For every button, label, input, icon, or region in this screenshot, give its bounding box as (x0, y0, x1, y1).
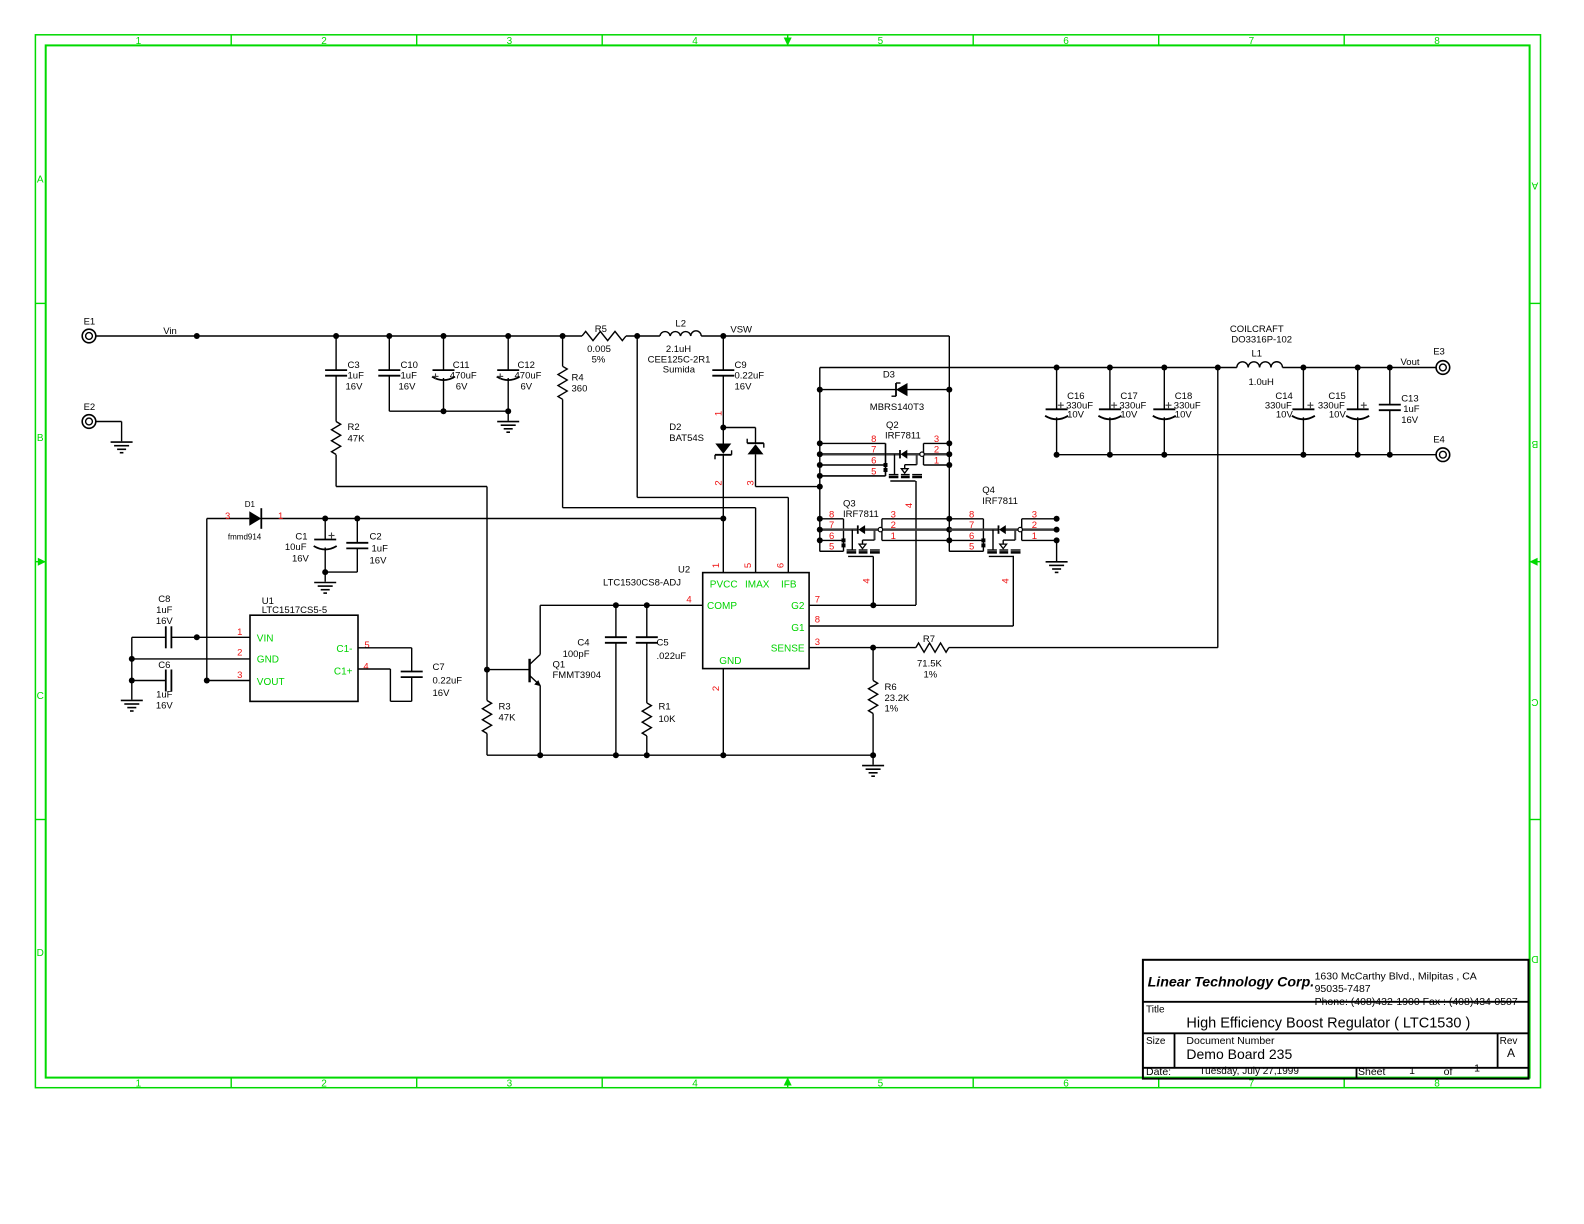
svg-text:1: 1 (237, 627, 242, 638)
svg-text:Size: Size (1146, 1036, 1166, 1047)
svg-text:6: 6 (829, 531, 834, 542)
svg-text:1uF: 1uF (401, 370, 418, 381)
svg-text:Q2: Q2 (886, 420, 899, 431)
svg-text:Q3: Q3 (843, 499, 856, 510)
svg-text:8: 8 (1434, 1078, 1440, 1089)
svg-text:2: 2 (321, 1078, 327, 1089)
svg-text:2: 2 (714, 480, 725, 485)
svg-text:1: 1 (934, 456, 939, 467)
svg-text:D3: D3 (883, 369, 895, 380)
capacitor C7 (401, 671, 423, 673)
svg-text:6V: 6V (456, 382, 468, 393)
svg-text:71.5K: 71.5K (917, 659, 942, 670)
wire G2 row (809, 604, 916, 606)
svg-text:C8: C8 (158, 594, 170, 605)
svg-text:10V: 10V (1175, 410, 1193, 421)
svg-text:LTC1517CS5-5: LTC1517CS5-5 (262, 605, 327, 616)
transistor Q3 IRF7811 (820, 518, 844, 520)
svg-text:6: 6 (969, 531, 974, 542)
diode D3 MBRS140T3 (820, 389, 896, 391)
wire cap bank bottom rail (389, 410, 508, 412)
wire VOUT row (207, 680, 250, 682)
svg-text:4: 4 (692, 36, 698, 47)
wire E2 to ground (96, 421, 122, 423)
svg-text:A: A (1531, 180, 1538, 191)
svg-text:47K: 47K (499, 713, 517, 724)
capacitor C13 (1389, 368, 1391, 405)
svg-text:E2: E2 (84, 402, 96, 413)
wire R2 bottom to Q1 base column (336, 486, 487, 488)
svg-text:5: 5 (878, 36, 884, 47)
svg-text:7: 7 (1249, 1078, 1255, 1089)
wire G1 row (809, 625, 1013, 627)
svg-text:R7: R7 (923, 634, 935, 645)
svg-text:IMAX: IMAX (745, 579, 770, 590)
capacitor C10 (388, 336, 390, 370)
wire GND row (132, 658, 250, 660)
svg-text:2: 2 (934, 445, 939, 456)
svg-text:8: 8 (829, 509, 834, 520)
resistor R5 (582, 331, 626, 340)
svg-text:FMMT3904: FMMT3904 (553, 670, 602, 681)
svg-text:16V: 16V (156, 616, 174, 627)
capacitor C5 (644, 602, 650, 608)
svg-text:3: 3 (891, 509, 896, 520)
svg-text:R5: R5 (595, 324, 607, 335)
svg-text:6: 6 (1063, 36, 1069, 47)
svg-text:High Efficiency Boost Regulato: High Efficiency Boost Regulator ( LTC153… (1186, 1015, 1470, 1031)
border frame inner (46, 45, 1530, 1077)
svg-text:4: 4 (904, 503, 915, 508)
capacitor C4 (613, 602, 619, 608)
svg-text:L2: L2 (675, 318, 686, 329)
svg-text:5: 5 (878, 1078, 884, 1089)
capacitor C17 (1109, 368, 1111, 410)
wire SENSE row (809, 647, 873, 649)
svg-text:C1-: C1- (336, 644, 352, 655)
wire SENSE feedback vertical (1217, 368, 1219, 648)
svg-text:C13: C13 (1401, 394, 1418, 405)
svg-text:2: 2 (321, 36, 327, 47)
diode D1 fmmd914 (249, 511, 261, 525)
svg-text:DO3316P-102: DO3316P-102 (1231, 335, 1292, 346)
svg-text:1: 1 (714, 411, 725, 416)
svg-text:L1: L1 (1252, 349, 1263, 360)
svg-text:Demo Board 235: Demo Board 235 (1186, 1046, 1292, 1062)
svg-text:5: 5 (364, 640, 369, 651)
svg-text:16V: 16V (156, 701, 174, 712)
inductor L2 (660, 331, 701, 336)
op-amp U1 LTC1517CS5-5 (250, 615, 358, 701)
svg-text:5: 5 (969, 542, 974, 553)
svg-text:7: 7 (829, 520, 834, 531)
svg-text:G2: G2 (791, 601, 805, 612)
svg-text:E1: E1 (84, 317, 96, 328)
svg-text:95035-7487: 95035-7487 (1315, 983, 1371, 995)
svg-text:7: 7 (871, 445, 876, 456)
capacitor C14 (1302, 368, 1304, 410)
wire left bus (819, 368, 821, 552)
svg-text:10V: 10V (1276, 409, 1294, 420)
resistor R1 (642, 703, 651, 736)
wire left gnd column (131, 637, 133, 699)
ground at Q4 (1056, 540, 1058, 561)
svg-text:5: 5 (829, 542, 834, 553)
svg-text:8: 8 (871, 434, 876, 445)
svg-text:3: 3 (507, 1078, 513, 1089)
svg-text:IRF7811: IRF7811 (843, 509, 879, 520)
svg-text:3: 3 (225, 511, 230, 522)
svg-text:Q4: Q4 (982, 485, 995, 496)
ground at cap bank (507, 411, 509, 421)
transistor Q2 IRF7811 (820, 442, 886, 444)
svg-text:C: C (37, 691, 44, 702)
capacitor C15 (1357, 368, 1359, 410)
svg-text:16V: 16V (735, 382, 753, 393)
svg-text:COMP: COMP (707, 601, 737, 612)
ground at C1 (324, 572, 326, 582)
svg-text:C5: C5 (657, 638, 669, 649)
terminal E1 (82, 329, 96, 343)
svg-text:E4: E4 (1433, 435, 1445, 446)
wire top output rail (820, 367, 1237, 369)
svg-text:Title: Title (1146, 1004, 1165, 1015)
svg-text:VSW: VSW (730, 325, 752, 336)
svg-text:Sumida: Sumida (663, 365, 696, 376)
ground at U1 (121, 699, 143, 701)
wire COMP row (540, 604, 703, 606)
svg-text:C2: C2 (370, 532, 382, 543)
svg-text:C: C (1531, 696, 1538, 707)
capacitor C6 (165, 670, 167, 692)
svg-text:1: 1 (1409, 1065, 1415, 1077)
svg-text:16V: 16V (370, 556, 388, 567)
svg-text:16V: 16V (1401, 415, 1419, 426)
svg-text:3: 3 (1032, 509, 1037, 520)
svg-text:U2: U2 (678, 564, 690, 575)
svg-text:3: 3 (745, 480, 756, 485)
op-amp U2 LTC1530CS8-ADJ (703, 573, 809, 669)
svg-text:IFB: IFB (781, 579, 797, 590)
border arrows (784, 38, 792, 46)
svg-text:470uF: 470uF (450, 370, 477, 381)
svg-text:0.22uF: 0.22uF (433, 675, 463, 686)
svg-text:16V: 16V (346, 382, 364, 393)
svg-text:VIN: VIN (257, 633, 274, 644)
svg-text:fmmd914: fmmd914 (228, 533, 262, 542)
transistor Q1 FMMT3904 (528, 659, 530, 683)
svg-text:4: 4 (692, 1078, 698, 1089)
svg-text:G1: G1 (791, 623, 805, 634)
wire bottom gnd rail (487, 754, 873, 756)
capacitor C18 (1163, 368, 1165, 410)
svg-text:D: D (1531, 953, 1538, 964)
capacitor C3 (335, 336, 337, 370)
svg-text:5: 5 (743, 563, 754, 568)
wire C1- loop (358, 647, 412, 649)
capacitor C11 (443, 336, 445, 370)
svg-text:GND: GND (719, 656, 741, 667)
svg-text:D2: D2 (669, 422, 681, 433)
svg-text:1: 1 (278, 511, 283, 522)
svg-text:of: of (1444, 1066, 1453, 1078)
svg-text:Sheet: Sheet (1358, 1066, 1386, 1078)
svg-text:470uF: 470uF (515, 370, 542, 381)
svg-text:A: A (1507, 1046, 1515, 1060)
svg-text:16V: 16V (292, 554, 310, 565)
svg-text:A: A (37, 175, 44, 186)
svg-text:3: 3 (815, 637, 820, 648)
svg-text:.022uF: .022uF (657, 651, 687, 662)
svg-text:1630 McCarthy Blvd., Milpitas: 1630 McCarthy Blvd., Milpitas , CA (1315, 971, 1477, 983)
svg-text:Linear Technology Corp.: Linear Technology Corp. (1148, 975, 1315, 991)
svg-text:R6: R6 (885, 682, 897, 693)
svg-text:47K: 47K (348, 433, 366, 444)
capacitor C8 (165, 626, 167, 648)
terminal E2 (82, 415, 96, 429)
svg-text:7: 7 (969, 520, 974, 531)
svg-text:COILCRAFT: COILCRAFT (1230, 324, 1284, 335)
wire U2 GND down (722, 669, 724, 756)
capacitor C16 (1056, 368, 1058, 410)
svg-text:2: 2 (711, 686, 722, 691)
resistor R4 (562, 336, 564, 366)
svg-text:E3: E3 (1433, 347, 1445, 358)
svg-text:1: 1 (136, 36, 142, 47)
svg-text:1uF: 1uF (156, 690, 173, 701)
svg-text:2: 2 (891, 520, 896, 531)
svg-text:10V: 10V (1067, 410, 1085, 421)
svg-text:R4: R4 (572, 373, 584, 384)
svg-text:BAT54S: BAT54S (669, 433, 704, 444)
svg-text:1: 1 (136, 1078, 142, 1089)
svg-text:16V: 16V (399, 382, 417, 393)
svg-text:4: 4 (686, 594, 691, 605)
svg-text:1uF: 1uF (348, 370, 365, 381)
svg-text:10uF: 10uF (285, 542, 307, 553)
svg-text:1uF: 1uF (156, 605, 173, 616)
svg-text:2: 2 (1032, 520, 1037, 531)
svg-text:6: 6 (1063, 1078, 1069, 1089)
svg-text:100pF: 100pF (563, 649, 590, 660)
svg-text:IRF7811: IRF7811 (982, 496, 1018, 507)
svg-text:2: 2 (237, 648, 242, 659)
svg-text:C4: C4 (577, 638, 589, 649)
ground at R6 (872, 755, 874, 765)
svg-text:1uF: 1uF (372, 544, 389, 555)
transistor Q4 IRF7811 (949, 518, 983, 520)
svg-text:IRF7811: IRF7811 (885, 431, 921, 442)
svg-text:3: 3 (237, 670, 242, 681)
svg-text:D: D (37, 948, 44, 959)
svg-text:1%: 1% (885, 704, 899, 715)
capacitor C12 (507, 336, 509, 370)
svg-text:4: 4 (363, 661, 368, 672)
svg-text:SENSE: SENSE (771, 644, 805, 655)
resistor R2 (332, 422, 341, 455)
ground at E2 (111, 441, 133, 443)
svg-text:6V: 6V (521, 382, 533, 393)
svg-text:3: 3 (934, 434, 939, 445)
svg-text:R3: R3 (499, 702, 511, 713)
svg-text:3: 3 (507, 36, 513, 47)
svg-text:23.2K: 23.2K (885, 693, 910, 704)
svg-text:1: 1 (1474, 1063, 1480, 1075)
svg-text:C6: C6 (158, 660, 170, 671)
terminal E3 (1436, 361, 1450, 375)
svg-text:GND: GND (257, 655, 279, 666)
svg-text:C7: C7 (433, 662, 445, 673)
terminal E4 (1436, 448, 1450, 462)
svg-text:360: 360 (572, 383, 588, 394)
wire VIN row (171, 636, 250, 638)
capacitor C9 (722, 336, 724, 370)
title block (1143, 960, 1529, 1079)
wire D2 pin1 to PVCC (722, 519, 724, 573)
svg-text:LTC1530CS8-ADJ: LTC1530CS8-ADJ (603, 578, 681, 589)
svg-text:16V: 16V (433, 688, 451, 699)
svg-text:10V: 10V (1329, 409, 1347, 420)
wire 5V rail (D1 row) (207, 518, 250, 520)
capacitor C1 (322, 516, 328, 522)
svg-text:0.22uF: 0.22uF (735, 370, 765, 381)
svg-text:1%: 1% (924, 670, 938, 681)
svg-text:Date:: Date: (1146, 1066, 1171, 1078)
svg-text:1.0uH: 1.0uH (1249, 377, 1274, 388)
resistor R3 (486, 670, 488, 701)
svg-text:8: 8 (969, 509, 974, 520)
svg-text:6: 6 (776, 563, 787, 568)
inductor L1 (1237, 362, 1283, 368)
svg-text:8: 8 (1434, 36, 1440, 47)
wire R4 to IMAX (563, 507, 756, 509)
wire Vin rail (96, 335, 582, 337)
svg-text:D1: D1 (245, 500, 256, 509)
svg-text:Tuesday, July 27,1999: Tuesday, July 27,1999 (1199, 1066, 1299, 1077)
svg-text:8: 8 (815, 615, 820, 626)
svg-text:10K: 10K (659, 714, 677, 725)
svg-text:1uF: 1uF (1403, 404, 1420, 415)
resistor R6 (872, 648, 874, 681)
svg-text:R2: R2 (348, 422, 360, 433)
svg-text:VOUT: VOUT (257, 677, 285, 688)
svg-text:B: B (37, 433, 44, 444)
svg-text:4: 4 (1001, 578, 1012, 583)
resistor R7 (873, 647, 916, 649)
capacitor C2 (354, 516, 360, 522)
svg-text:5%: 5% (592, 354, 606, 365)
svg-text:1: 1 (891, 531, 896, 542)
svg-text:1: 1 (711, 563, 722, 568)
svg-text:B: B (1531, 438, 1538, 449)
svg-text:7: 7 (1249, 36, 1255, 47)
svg-text:7: 7 (815, 594, 820, 605)
svg-text:C1+: C1+ (334, 667, 353, 678)
wire IFB feedback (636, 336, 638, 497)
svg-text:R1: R1 (659, 702, 671, 713)
svg-text:Phone: (408)432-1900 Fax : (40: Phone: (408)432-1900 Fax : (408)434-0507 (1315, 996, 1518, 1008)
svg-text:1: 1 (1032, 531, 1037, 542)
wire VSW corner down (948, 336, 950, 551)
svg-text:Vout: Vout (1400, 357, 1419, 368)
svg-text:PVCC: PVCC (710, 579, 738, 590)
svg-text:4: 4 (861, 578, 872, 583)
svg-text:5: 5 (871, 466, 876, 477)
svg-text:C1: C1 (295, 532, 307, 543)
wire output bottom rail (1057, 454, 1437, 456)
svg-text:6: 6 (871, 456, 876, 467)
svg-text:10V: 10V (1120, 410, 1138, 421)
svg-text:MBRS140T3: MBRS140T3 (870, 402, 924, 413)
